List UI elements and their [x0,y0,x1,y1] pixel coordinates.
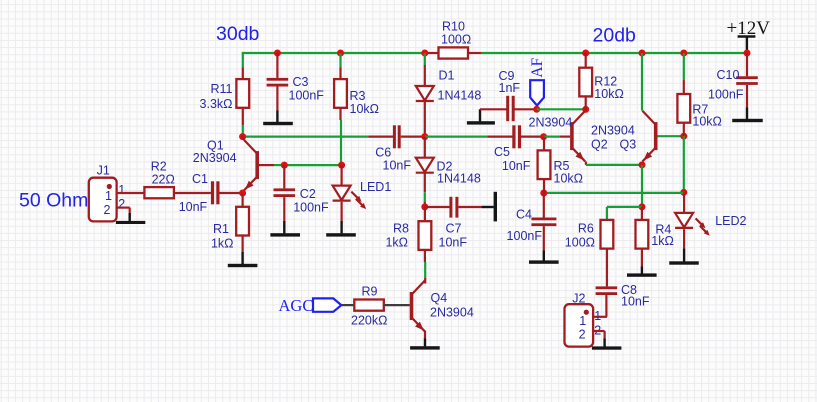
svg-text:R6: R6 [578,221,594,235]
pin 1 J2 inside [579,314,586,328]
junction mid R11-Q1 [239,133,246,140]
svg-text:LED2: LED2 [715,214,746,228]
svg-text:3.3kΩ: 3.3kΩ [200,97,233,111]
resistor R6 [565,220,614,250]
svg-text:1nF: 1nF [499,81,521,95]
resistor R2 [144,160,174,199]
svg-text:2: 2 [579,327,586,341]
wire C4 top lead [543,193,545,218]
junction base C2 [281,162,288,169]
ground C2 [270,221,300,237]
svg-text:LED1: LED1 [360,180,391,194]
resistor R4 [636,220,674,249]
svg-text:100nF: 100nF [507,229,543,243]
wire R11 bottom lead [242,108,244,136]
junction D2 C7 R8 [421,203,428,210]
pin 1 J2 [594,309,601,323]
diode D2 [416,158,481,186]
svg-text:R3: R3 [350,89,366,103]
svg-text:1: 1 [118,183,125,197]
svg-text:J1: J1 [97,164,110,178]
resistor R8 [385,221,431,250]
svg-text:C3: C3 [293,75,309,89]
junction base LED1 [338,162,345,169]
wire J1 pin1 to R2 [117,192,145,194]
power +12V [727,18,771,53]
svg-text:R9: R9 [362,285,378,299]
wire Q3 collector branch [641,53,643,111]
svg-text:J2: J2 [572,292,585,306]
svg-text:2N3904: 2N3904 [430,306,474,320]
junction Q3 base R7 [680,133,687,140]
wire LED1 bottom lead [341,202,343,221]
svg-text:10nF: 10nF [502,159,531,173]
resistor R5 [538,150,583,185]
svg-text:10nF: 10nF [439,235,468,249]
junction top R3 [337,50,344,57]
ground R4 [627,267,657,277]
svg-text:C10: C10 [717,68,740,82]
wire mid bus seg1 [243,136,369,138]
svg-text:1kΩ: 1kΩ [211,236,234,250]
led LED2 [675,192,746,235]
svg-text:R1: R1 [213,222,229,236]
svg-text:100nF: 100nF [289,89,325,103]
wire R9 to Q4 base [384,304,410,306]
wire Q3 emitter lead [641,162,643,165]
svg-text:100Ω: 100Ω [565,236,595,250]
ground C7 [481,192,497,222]
wire C5 left lead [487,136,512,138]
svg-text:C1: C1 [192,172,208,186]
connector J2 [565,292,594,347]
svg-text:2N3904: 2N3904 [193,151,237,165]
svg-text:100nF: 100nF [293,201,329,215]
svg-text:10kΩ: 10kΩ [554,172,584,186]
svg-text:100Ω: 100Ω [441,32,471,46]
svg-text:220kΩ: 220kΩ [351,314,387,328]
wire Q1 base lead [259,164,284,166]
ground C9 [467,109,495,124]
svg-text:10kΩ: 10kΩ [692,115,722,129]
resistor R1 [211,207,249,251]
wire C9 left lead [480,108,507,110]
wire top bus red R10 right lead [468,52,481,54]
wire R8 top lead [424,207,426,221]
led LED1 [333,165,392,209]
wire R12 top lead [585,53,587,68]
wire R8 bottom lead [424,250,427,283]
wire C6 left lead [368,136,393,138]
svg-text:1: 1 [105,189,112,203]
wire C5 right lead [521,136,544,138]
label Q3 [620,138,637,152]
wire C1 to junction [220,192,243,194]
junction top R12 [582,50,589,57]
svg-text:2N3904: 2N3904 [591,124,635,138]
ground C3 [263,111,293,126]
wire R6 top leads [607,207,642,220]
capacitor C1 [179,172,220,214]
wire emitters down [641,165,643,207]
junction C1 Q1 R1 [239,190,246,197]
wire C10 bottom lead [746,85,748,108]
pin 1 J1 [118,183,125,197]
svg-text:100nF: 100nF [708,88,744,102]
svg-text:AF: AF [529,57,546,77]
junction mid R5 [540,133,547,140]
wire C8 bottom lead [593,295,607,317]
svg-text:10kΩ: 10kΩ [594,87,624,101]
junction AF [533,106,540,113]
wire R7 bottom lead [683,123,685,136]
capacitor C7 [439,197,468,250]
wire J2 pin2 lead [593,331,605,339]
wire R11 top lead [242,52,244,79]
wire R5 top lead [543,137,545,151]
wire R12 bottom lead [585,97,587,110]
wire top bus green right [481,52,747,54]
capacitor C10 [708,68,758,102]
junction emitters [639,161,646,168]
junction LED2 top [680,189,687,196]
wire Q3 base lead [658,135,684,137]
svg-text:C6: C6 [375,145,391,159]
wire R7 top lead [683,53,685,94]
transistor Q1 [193,139,259,191]
label Q2 [591,138,608,152]
svg-text:1: 1 [594,309,601,323]
ground Q4 [410,339,440,350]
ground LED2 [669,248,699,264]
junction top +12V [744,50,751,57]
wire D1 to mid bus [424,102,426,137]
svg-text:R10: R10 [442,19,465,33]
wire AF to R12 [537,108,586,110]
svg-text:AGC: AGC [279,296,314,315]
wire Q1 collector lead [242,137,245,140]
wire R4 top lead [641,207,643,220]
capacitor C2 [274,187,330,215]
svg-text:C7: C7 [446,222,462,236]
wire C10 top lead [746,53,748,76]
wire R3 bottom lead [339,108,342,165]
svg-text:1: 1 [579,314,586,328]
svg-text:2: 2 [104,203,111,217]
connector J1 [89,164,117,222]
junction mid D1-D2 [421,133,428,140]
resistor R10 [439,19,472,58]
ground R1 [228,252,258,267]
svg-text:20db: 20db [593,24,637,46]
transistor Q2 [529,111,586,162]
wire Q2 collector lead [584,109,587,110]
wire Q4 emitter lead [424,331,426,339]
svg-text:R8: R8 [393,222,409,236]
wire Q2 emitter lead [585,162,587,165]
svg-text:1kΩ: 1kΩ [651,234,674,248]
svg-text:C4: C4 [516,207,532,221]
wire C2 bottom lead [283,197,285,221]
pin 2 J2 [594,324,601,338]
svg-text:1kΩ: 1kΩ [385,236,408,250]
ground J2 [592,339,622,350]
wire C4 bottom lead [543,226,545,250]
svg-text:Q2: Q2 [591,138,608,152]
capacitor C5 [494,125,531,173]
wire R1 bottom lead [242,236,244,252]
wire C3 top lead [276,53,278,78]
wire J1 pin2 lead [117,208,130,214]
wire D2 top lead [424,137,426,158]
pin 2 J1 inside [104,203,111,217]
resistor R3 [334,79,379,116]
svg-text:10nF: 10nF [621,295,650,309]
junction R5 C4 [540,190,547,197]
wire R6 to C8 [606,249,608,286]
wire C9 right lead [515,108,537,110]
wire C3 bottom lead [276,87,278,111]
wire D1 top lead [424,53,426,86]
wire R4 bottom lead [641,249,643,267]
pin 1 J1 inside [105,189,112,203]
svg-text:C2: C2 [300,187,316,201]
capacitor C6 [375,125,411,172]
node 20db [593,24,637,46]
wire R7 to LED2 [683,136,685,192]
wire top bus red R10 left lead [425,52,439,54]
svg-text:R11: R11 [210,82,232,96]
resistor R7 [677,94,722,129]
svg-text:Q3: Q3 [620,138,637,152]
junction top C3 [274,50,281,57]
wire R2 to C1 [174,192,211,194]
svg-text:10nF: 10nF [179,200,208,214]
ground LED1 [326,221,356,237]
capacitor C8 [596,283,650,309]
wire Q2-Q3 emitter bus [586,164,642,166]
resistor R12 [579,68,624,102]
capacitor C4 [507,207,557,243]
svg-text:2N3904: 2N3904 [529,116,573,130]
svg-text:30db: 30db [216,23,260,45]
pin 2 J1 [118,197,125,211]
ground J1 [116,213,145,224]
ground C10 [732,108,763,123]
transistor Q3 [591,111,658,162]
resistor R11 [200,79,250,111]
svg-text:D1: D1 [439,69,455,83]
wire Q1 base bus [284,164,341,166]
svg-text:1N4148: 1N4148 [438,89,482,103]
svg-text:50 Ohm: 50 Ohm [19,190,88,212]
resistor R9 [351,285,387,328]
junction R4 R6 [639,203,646,210]
node AF flag [529,57,546,105]
ground C4 [529,251,559,264]
wire C7 left lead [425,206,450,208]
diode D1 [416,69,482,103]
wire AGC to R9 [341,304,354,306]
wire R3 top lead [339,53,341,79]
wire LED2 bottom lead [683,229,685,248]
svg-text:10nF: 10nF [383,159,412,173]
junction R12 Q2 collector [582,106,589,113]
wire mid bus seg2 [425,136,488,138]
wire R5 bottom lead [543,180,545,194]
svg-text:Q4: Q4 [431,291,448,305]
svg-text:22Ω: 22Ω [152,172,175,186]
wire C7 right lead [458,206,481,208]
wire Q1 emitter lead [242,190,244,193]
junction top R7 [680,50,687,57]
junction top D1 [421,50,428,57]
capacitor C9 [499,69,521,121]
wire top bus green left [243,52,425,54]
junction top Q3 branch [639,50,646,57]
svg-text:C5: C5 [494,145,510,159]
wire R1 top lead [242,193,244,207]
node 50 Ohm [19,190,88,212]
wire mid bus seg3 [544,136,570,138]
node AGC flag [279,296,342,315]
wire C6 right lead [401,136,425,138]
svg-text:10kΩ: 10kΩ [350,102,380,116]
capacitor C3 [267,75,325,103]
wire C2 top lead [283,165,285,188]
wire R5 to LED2 bus [544,192,684,194]
transistor Q4 [410,281,474,332]
svg-text:1N4148: 1N4148 [437,172,481,186]
pin 2 J2 inside [579,327,586,341]
node 30db [216,23,260,45]
wire D2 bottom lead [424,173,426,207]
